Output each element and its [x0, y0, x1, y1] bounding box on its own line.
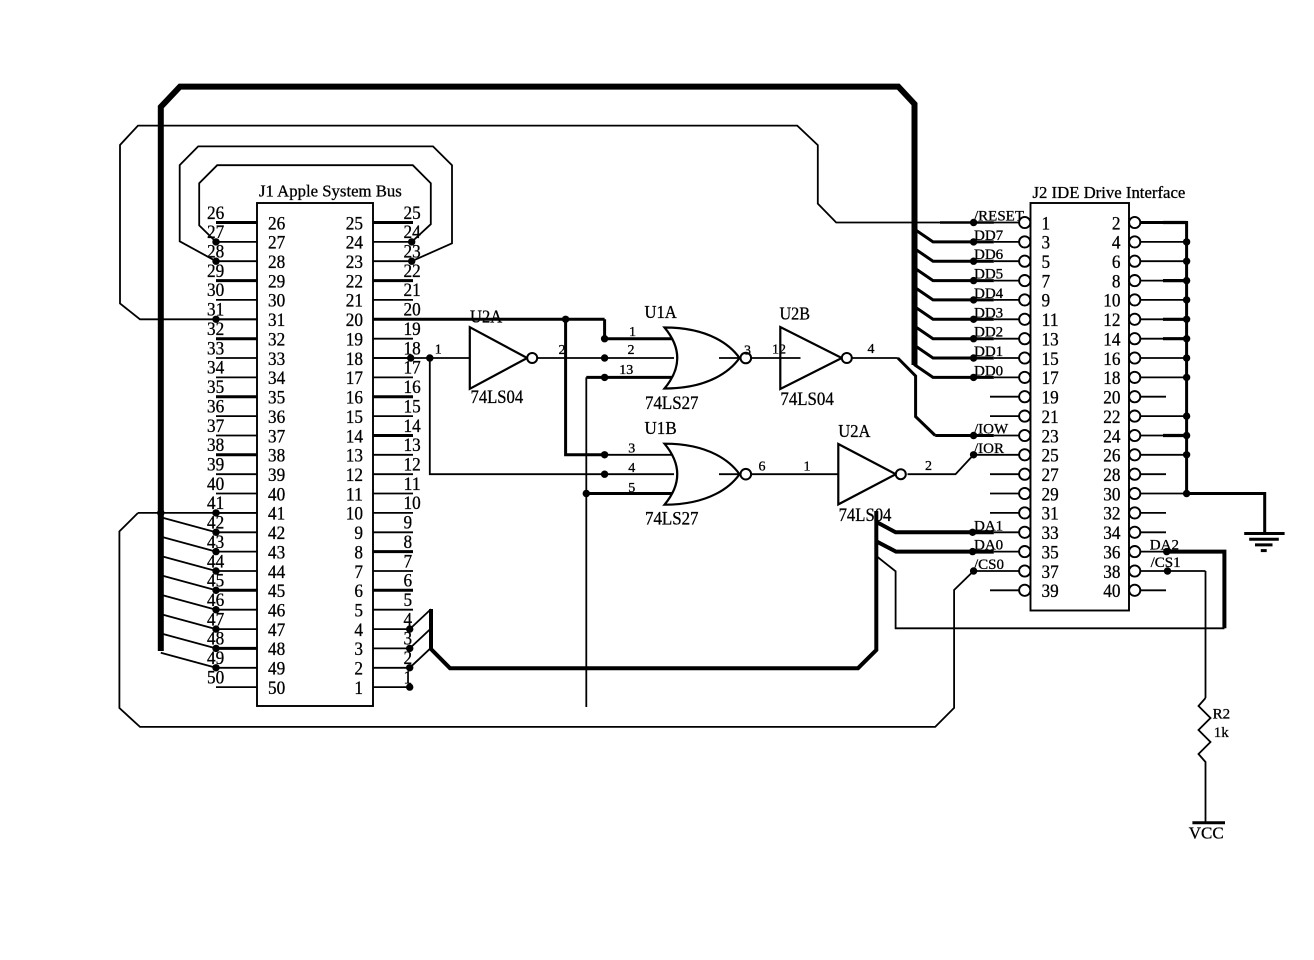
label 74LS04 (U2B) [780, 390, 833, 410]
svg-text:5: 5 [628, 481, 635, 496]
svg-text:24: 24 [1103, 426, 1121, 447]
svg-text:23: 23 [1042, 426, 1059, 447]
svg-text:74LS27: 74LS27 [645, 510, 699, 530]
svg-text:40: 40 [1103, 581, 1120, 602]
junction on /CS0 at J2 pin37 [970, 567, 977, 574]
svg-text:8: 8 [354, 542, 363, 563]
svg-text:5: 5 [1042, 252, 1051, 273]
svg-text:33: 33 [207, 338, 224, 359]
svg-text:1: 1 [435, 343, 442, 358]
op-amp/gate U1B (74LS27 NOR) [665, 444, 752, 505]
junctions on pin18 net [407, 354, 608, 478]
svg-text:U2A: U2A [470, 306, 502, 326]
svg-text:13: 13 [619, 363, 633, 378]
svg-text:10: 10 [346, 504, 363, 525]
svg-text:33: 33 [1042, 523, 1059, 544]
wire DA1 from bus to J2 pin33 [876, 522, 1019, 536]
svg-text:31: 31 [268, 310, 285, 331]
wires J1 pins 42-49 merging into bus [161, 517, 220, 671]
svg-text:DD4: DD4 [974, 286, 1004, 302]
svg-text:34: 34 [1103, 523, 1121, 544]
svg-text:/RESET: /RESET [974, 209, 1024, 225]
svg-text:6: 6 [354, 581, 363, 602]
svg-text:11: 11 [1042, 310, 1059, 331]
svg-text:36: 36 [1103, 542, 1121, 563]
junction at J1 pin24 [408, 238, 415, 245]
J1 pin numbers inside [268, 213, 363, 699]
label 74LS04 (U2A left) [471, 388, 524, 408]
label 74LS27 (U1A) [645, 394, 699, 414]
svg-text:49: 49 [268, 659, 285, 680]
svg-text:3: 3 [354, 639, 363, 660]
svg-text:41: 41 [268, 504, 285, 525]
U1B pin number labels [628, 441, 765, 496]
svg-text:38: 38 [207, 435, 224, 456]
J2 left unconnected stubs [990, 397, 1019, 591]
svg-text:DD1: DD1 [974, 344, 1003, 360]
svg-text:2: 2 [1112, 213, 1121, 234]
svg-text:7: 7 [404, 551, 413, 572]
svg-text:U1A: U1A [645, 302, 677, 322]
svg-text:15: 15 [346, 407, 363, 428]
svg-text:1: 1 [804, 459, 811, 474]
bus thick C-shape (J1 pins 2-4 to DA0/DA1/DA2) [431, 511, 876, 668]
svg-text:24: 24 [346, 233, 364, 254]
svg-text:1k: 1k [1214, 725, 1230, 741]
svg-text:22: 22 [1103, 407, 1120, 428]
svg-text:17: 17 [1042, 368, 1060, 389]
svg-text:DD7: DD7 [974, 228, 1004, 244]
wire /CS1 net from J2 pin38 to R2 [1140, 567, 1205, 698]
wire U2A output to U1A pin2 [537, 354, 674, 361]
junction at J1 pin23 [408, 258, 415, 265]
junction at J1 pin27 [212, 238, 219, 245]
wire net J1 pin27 to J1 pin24 (inner nested loop) [199, 165, 431, 242]
svg-text:37: 37 [207, 416, 225, 437]
U2B pin labels [772, 342, 875, 358]
svg-text:VCC: VCC [1189, 824, 1224, 843]
wires DD7-DD0 from bus to J2 [914, 229, 1019, 381]
svg-text:/CS1: /CS1 [1151, 555, 1181, 571]
svg-text:U1B: U1B [645, 418, 677, 438]
J2 title (J2 IDE Drive Interface) [1033, 183, 1186, 202]
wire R2 to VCC [1205, 766, 1207, 823]
svg-text:35: 35 [207, 377, 224, 398]
svg-text:12: 12 [772, 343, 786, 358]
svg-text:4: 4 [354, 620, 363, 641]
svg-text:R2: R2 [1213, 707, 1231, 723]
svg-text:37: 37 [268, 426, 286, 447]
svg-text:42: 42 [268, 523, 285, 544]
svg-text:19: 19 [1042, 388, 1059, 409]
svg-text:32: 32 [1103, 504, 1120, 525]
J1 left pin stubs and labels (pins 26-50) [207, 203, 257, 689]
svg-text:40: 40 [268, 484, 285, 505]
label U2B [780, 304, 811, 324]
svg-text:13: 13 [346, 446, 363, 467]
svg-text:17: 17 [346, 368, 364, 389]
svg-text:20: 20 [404, 300, 421, 321]
svg-text:35: 35 [1042, 542, 1059, 563]
transistor-like inverter U2A left (74LS04) [470, 327, 537, 389]
wire /IOR net from U2A output to J2 pin25 [908, 455, 1020, 474]
svg-text:3: 3 [744, 344, 751, 359]
wires J1 pins 4,3,2 merging into bus (and pin1 junction dot) [406, 609, 431, 691]
junction U1B pin3 [601, 451, 608, 458]
junction on /RESET at J2 pin1 [940, 219, 994, 226]
label 1k [1214, 725, 1230, 741]
net name labels at J2 left side [974, 209, 1024, 574]
J1 right pin stubs and labels (pins 25-1) [373, 203, 421, 689]
svg-text:12: 12 [404, 455, 421, 476]
wire U1A output to U2B input [749, 357, 780, 359]
junction pin20/branch [562, 316, 569, 323]
resistor R2 [1199, 698, 1211, 766]
svg-text:15: 15 [1042, 349, 1059, 370]
svg-text:18: 18 [346, 349, 363, 370]
svg-text:U2B: U2B [780, 304, 811, 324]
J2 right unconnected stubs [1140, 397, 1166, 591]
svg-text:30: 30 [1103, 484, 1120, 505]
svg-text:18: 18 [1103, 368, 1120, 389]
svg-text:3: 3 [628, 441, 635, 456]
svg-text:14: 14 [404, 416, 422, 437]
svg-text:39: 39 [207, 455, 224, 476]
svg-text:50: 50 [268, 678, 285, 699]
J1 title (J1 Apple System Bus) [259, 182, 402, 201]
J2 pin circles [1019, 217, 1140, 596]
inverter U2A right (74LS04) [838, 444, 906, 504]
svg-text:DD3: DD3 [974, 305, 1003, 321]
junctions pin13/pin5 net [583, 374, 609, 498]
svg-text:43: 43 [268, 542, 285, 563]
svg-text:8: 8 [1112, 271, 1121, 292]
svg-text:11: 11 [346, 484, 363, 505]
svg-text:48: 48 [268, 639, 285, 660]
svg-text:9: 9 [354, 523, 363, 544]
svg-text:4: 4 [868, 342, 875, 357]
svg-text:10: 10 [404, 493, 421, 514]
svg-text:33: 33 [268, 349, 285, 370]
svg-text:22: 22 [346, 271, 363, 292]
svg-text:32: 32 [268, 330, 285, 351]
svg-text:74LS04: 74LS04 [780, 390, 833, 410]
svg-text:30: 30 [207, 280, 224, 301]
svg-text:DD0: DD0 [974, 363, 1003, 379]
svg-text:34: 34 [268, 368, 286, 389]
wire J1 pin41 to bus [138, 509, 257, 516]
svg-text:13: 13 [404, 435, 421, 456]
svg-text:26: 26 [207, 203, 225, 224]
svg-text:DD5: DD5 [974, 267, 1003, 283]
svg-text:7: 7 [354, 562, 363, 583]
J2 pin numbers inside [1042, 213, 1121, 602]
svg-text:45: 45 [268, 581, 285, 602]
svg-text:21: 21 [1042, 407, 1059, 428]
svg-text:39: 39 [268, 465, 285, 486]
svg-text:37: 37 [1042, 562, 1060, 583]
svg-text:11: 11 [404, 474, 421, 495]
svg-text:28: 28 [268, 252, 285, 273]
svg-text:2: 2 [354, 659, 363, 680]
svg-text:36: 36 [268, 407, 286, 428]
wire J1 pin18 net to U2A input and U1B pin4 [373, 358, 674, 474]
svg-text:1: 1 [629, 325, 636, 340]
svg-text:12: 12 [1103, 310, 1120, 331]
junction U1A pin1 [601, 335, 608, 342]
svg-text:3: 3 [1042, 233, 1051, 254]
svg-text:40: 40 [207, 474, 224, 495]
U1A pin number labels [619, 325, 751, 378]
connector J2 box [1031, 203, 1130, 611]
svg-text:16: 16 [346, 388, 364, 409]
svg-text:31: 31 [1042, 504, 1059, 525]
bus thick loop (J1 pins 42-49 over top to DD lines) [161, 87, 915, 651]
svg-text:2: 2 [559, 343, 566, 358]
svg-text:5: 5 [354, 601, 363, 622]
power VCC symbol [1189, 823, 1225, 843]
svg-text:16: 16 [1103, 349, 1121, 370]
label 74LS27 (U1B) [645, 510, 699, 530]
wire net J1 pin28 to J1 pin23 (outer nested loop) [180, 146, 452, 261]
wire /IOW net from U2B output to J2 pin23 [852, 358, 1019, 436]
svg-text:2: 2 [628, 343, 635, 358]
op-amp/gate U1A (74LS27 NOR) [665, 328, 752, 389]
svg-text:6: 6 [404, 571, 413, 592]
svg-text:14: 14 [346, 426, 364, 447]
label U1B [645, 418, 677, 438]
label 74LS04 (U2A right) [839, 506, 892, 526]
junction at J1 pin28 [212, 258, 219, 265]
connector J1 box [257, 203, 373, 706]
svg-text:10: 10 [1103, 291, 1120, 312]
junction /IOR [970, 451, 977, 458]
svg-text:DD2: DD2 [974, 325, 1003, 341]
svg-text:7: 7 [1042, 271, 1051, 292]
svg-text:4: 4 [1112, 233, 1121, 254]
U2A right pin labels [804, 459, 933, 474]
svg-text:47: 47 [268, 620, 286, 641]
svg-text:27: 27 [268, 233, 286, 254]
wire DA2 net from bus to J2 pin36 [876, 548, 1224, 628]
svg-text:36: 36 [207, 396, 225, 417]
svg-text:46: 46 [268, 601, 286, 622]
svg-text:25: 25 [404, 203, 421, 224]
wire J1 pin20 net (thick) to U1A pin1 and U1B pin3 [373, 319, 674, 455]
svg-text:U2A: U2A [838, 421, 870, 441]
label U1A [645, 302, 677, 322]
junction on /RESET at J1 pin31 [212, 316, 219, 323]
svg-text:44: 44 [268, 562, 286, 583]
svg-text:26: 26 [268, 213, 286, 234]
svg-text:35: 35 [268, 388, 285, 409]
svg-text:16: 16 [404, 377, 422, 398]
svg-text:2: 2 [925, 459, 932, 474]
wire U1A pin13 to U1B pin5 net [586, 377, 674, 707]
junction /IOW [970, 432, 977, 439]
svg-text:74LS27: 74LS27 [645, 394, 699, 414]
svg-text:39: 39 [1042, 581, 1059, 602]
svg-text:1: 1 [354, 678, 363, 699]
label R2 [1213, 707, 1231, 723]
svg-text:27: 27 [1042, 465, 1060, 486]
svg-text:20: 20 [1103, 388, 1120, 409]
wires J2 right pins to ground bus [1140, 223, 1264, 533]
svg-text:38: 38 [1103, 562, 1120, 583]
wire DA0 from bus to J2 pin35 [876, 541, 1019, 555]
U2A left pin labels [435, 343, 566, 358]
label /CS1 [1151, 555, 1181, 571]
svg-text:26: 26 [1103, 446, 1121, 467]
label DA2 [1150, 538, 1179, 554]
svg-text:14: 14 [1103, 330, 1121, 351]
inverter U2B (74LS04) [780, 327, 852, 389]
svg-text:9: 9 [1042, 291, 1051, 312]
svg-text:30: 30 [268, 291, 285, 312]
ground symbol [1244, 534, 1284, 551]
svg-text:13: 13 [1042, 330, 1059, 351]
svg-text:29: 29 [268, 271, 285, 292]
label U2A (right) [838, 421, 870, 441]
svg-text:8: 8 [404, 532, 413, 553]
svg-text:74LS04: 74LS04 [839, 506, 892, 526]
svg-text:6: 6 [759, 460, 766, 475]
svg-text:28: 28 [1103, 465, 1120, 486]
svg-text:20: 20 [346, 310, 363, 331]
wire U1B output to U2A input [749, 473, 838, 475]
wire /RESET net (J1 pin31 to J2 pin1, outer thin loop) [120, 126, 1019, 320]
svg-text:19: 19 [346, 330, 363, 351]
svg-text:12: 12 [346, 465, 363, 486]
svg-text:74LS04: 74LS04 [471, 388, 524, 408]
svg-text:DA2: DA2 [1150, 538, 1179, 554]
svg-text:38: 38 [268, 446, 285, 467]
svg-text:25: 25 [346, 213, 363, 234]
svg-text:/CS0: /CS0 [974, 557, 1004, 573]
svg-text:23: 23 [346, 252, 363, 273]
svg-text:25: 25 [1042, 446, 1059, 467]
svg-text:15: 15 [404, 396, 421, 417]
svg-text:34: 34 [207, 358, 225, 379]
svg-text:9: 9 [404, 513, 413, 534]
svg-text:19: 19 [404, 319, 421, 340]
label U2A (left) [470, 306, 502, 326]
svg-text:DD6: DD6 [974, 247, 1004, 263]
svg-text:1: 1 [1042, 213, 1051, 234]
svg-text:6: 6 [1112, 252, 1121, 273]
svg-text:J1 Apple System Bus: J1 Apple System Bus [259, 182, 402, 201]
svg-text:21: 21 [404, 280, 421, 301]
svg-text:29: 29 [1042, 484, 1059, 505]
svg-text:21: 21 [346, 291, 363, 312]
wire /CS0 net (J1 pin41 loop to J2 pin37) [119, 513, 1019, 727]
svg-text:4: 4 [628, 461, 635, 476]
svg-text:5: 5 [404, 590, 413, 611]
svg-text:J2 IDE Drive Interface: J2 IDE Drive Interface [1033, 183, 1186, 202]
